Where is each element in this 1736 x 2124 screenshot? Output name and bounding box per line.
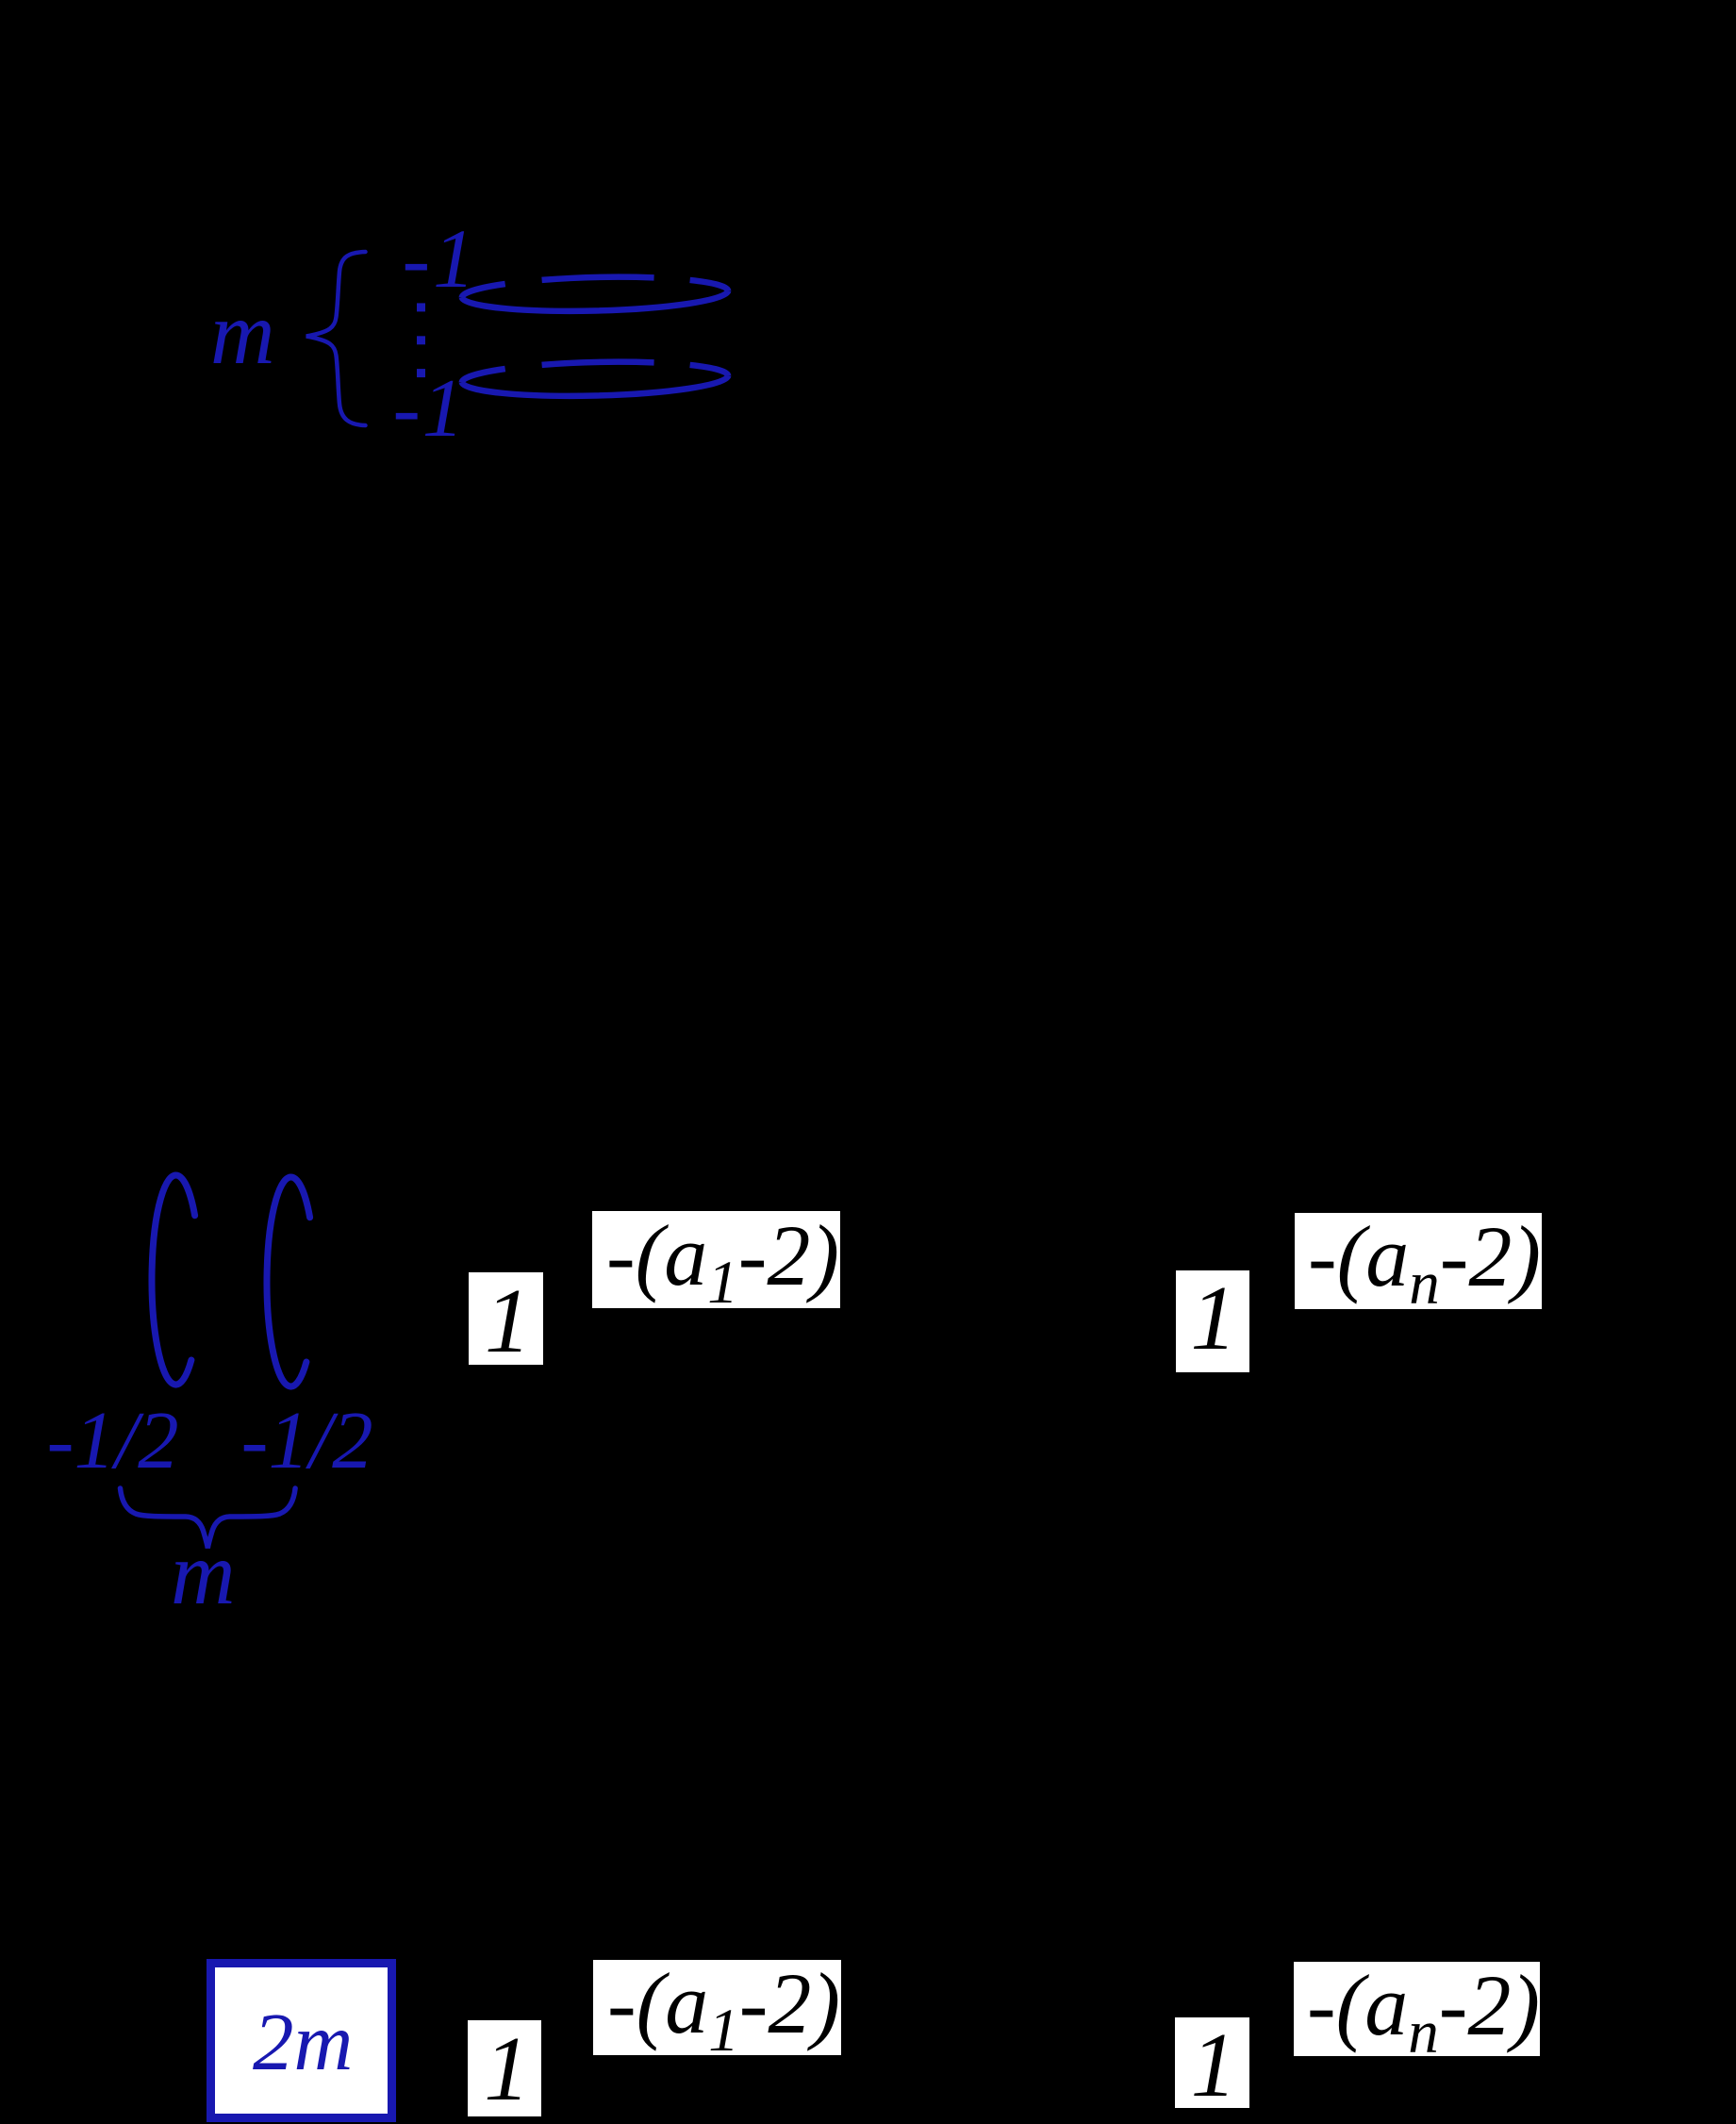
svg-text:m: m [171,1523,236,1623]
framing label -(a1-2) (bottom row) [593,1960,841,2055]
svg-text:m: m [210,283,275,383]
framing label -(an-2) (middle row) [1295,1213,1542,1309]
svg-text:1: 1 [1191,1268,1237,1369]
underbrace for m (bottom of arcs) [121,1488,296,1549]
ring 1: -1 framed unknot around strands (broken at crossings) [461,274,728,314]
framing box 1 (bottom row, right) [1175,2017,1249,2108]
curly brace for m (top group) [306,252,366,425]
ring 2: -1 framed unknot around strands (broken at crossings) [461,359,728,399]
framing label -(a1-2) (middle row) [592,1211,840,1308]
svg-text:-1/2: -1/2 [241,1394,373,1485]
meridian arc 1 (-1/2 framed circle seen edge-on) [152,1175,195,1385]
svg-text:-1: -1 [393,363,466,455]
meridian arc 2 (-1/2 framed circle seen edge-on) [267,1177,310,1386]
2m surgery coefficient box (blue framed) [211,1964,392,2118]
framing label -(an-2) (bottom row) [1294,1962,1540,2056]
framing box 1 (bottom row, left) [468,2020,541,2116]
svg-text:1: 1 [485,1270,531,1372]
svg-text:1: 1 [484,2018,530,2119]
framing box 1 (middle row, right) [1176,1270,1249,1372]
dotted vertical ellipsis [417,303,425,311]
svg-text:-1/2: -1/2 [47,1394,179,1485]
svg-text:1: 1 [1191,2015,1237,2116]
framing box 1 (middle row, left) [469,1272,543,1365]
svg-text:2m: 2m [253,1996,353,2087]
